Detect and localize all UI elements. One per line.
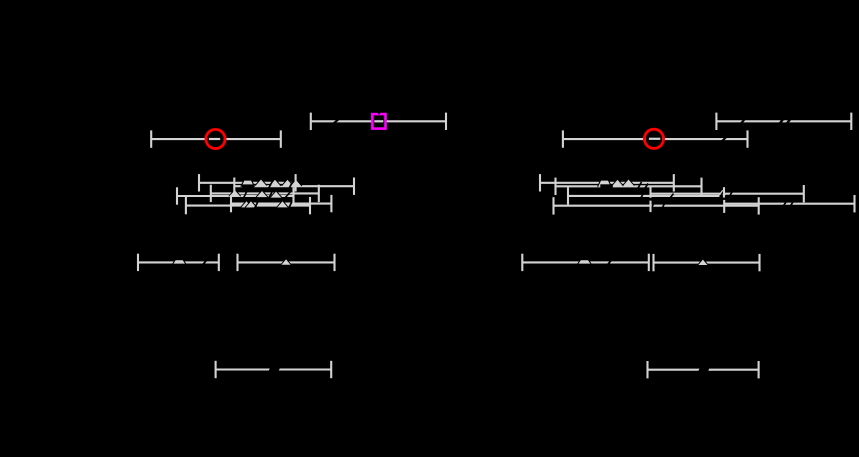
- triangle markers left cluster row A: [241, 179, 302, 187]
- errorbar LB1 line: [199, 182, 296, 184]
- red circle R gray dash: [649, 138, 660, 140]
- caps L7: [215, 361, 217, 378]
- triangle markers left cluster row C: [241, 201, 289, 208]
- magenta square top notch: [377, 112, 381, 115]
- errorbar L7 line: [216, 368, 332, 370]
- errorbar LT1 line: [311, 120, 446, 122]
- black gap on R7: [698, 367, 710, 372]
- caps LB3: [210, 185, 212, 202]
- red circle L gray dash: [209, 138, 220, 140]
- caps LB6: [185, 197, 187, 214]
- caps RB6: [552, 197, 554, 214]
- errorbar LB2 line: [234, 185, 354, 187]
- triangle markers right cluster row A: [598, 179, 635, 187]
- caps RB3: [649, 186, 651, 198]
- caps LR2: [150, 130, 152, 147]
- triangle markers left cluster row B: [229, 189, 282, 197]
- errorbar R7 line: [648, 369, 759, 371]
- errorbar RB6 line: [554, 205, 759, 207]
- errorbar RB1 line: [540, 182, 674, 184]
- errorbar RT1 line: [716, 120, 851, 122]
- caps RB1: [539, 174, 541, 191]
- cap extra right cluster low: [723, 200, 725, 213]
- black dash marker left cluster: [242, 184, 254, 187]
- caps R6b: [652, 254, 654, 271]
- errorbar L6a line: [138, 261, 219, 263]
- red circle L interior: [207, 131, 223, 147]
- errorbar RB2 line: [556, 185, 702, 187]
- triangle marker right cluster row B small: [719, 190, 726, 195]
- caps RB2: [554, 178, 556, 195]
- errorbar RR2 line: [563, 138, 748, 140]
- errorbar LB6 line: [186, 205, 310, 207]
- caps RB5: [649, 201, 651, 213]
- caps R7: [646, 361, 648, 378]
- black slashes on RT1: [741, 119, 745, 123]
- red circle R ring: [644, 129, 663, 148]
- errorbar R6a line: [522, 261, 649, 263]
- caps LB4: [176, 187, 178, 204]
- black slash marks right cluster: [638, 182, 795, 209]
- black slash on LT1: [334, 119, 339, 123]
- caps RR2: [562, 130, 564, 147]
- magenta square ring: [372, 114, 385, 129]
- errorbar RB4 line: [568, 195, 720, 197]
- magenta square gray dash: [374, 120, 383, 122]
- black slash on L6a: [203, 260, 207, 264]
- black gap on L7: [268, 367, 280, 372]
- caps LT1: [310, 113, 312, 130]
- black slash on R6a: [608, 260, 611, 264]
- errorbar R6b line: [654, 262, 760, 264]
- caps LB2: [233, 178, 235, 195]
- errorbar RB3 line: [651, 193, 804, 195]
- caps L6b: [236, 254, 238, 271]
- black slash marks left cluster: [243, 181, 293, 209]
- red circle L ring: [206, 129, 225, 148]
- black slash on RR2: [722, 137, 727, 142]
- red circle R interior: [646, 131, 662, 147]
- magenta square marker interior: [373, 114, 386, 128]
- errorbar RB5 line: [724, 203, 855, 205]
- black dash marker right cluster: [600, 184, 613, 187]
- caps L6a: [137, 254, 139, 271]
- errorbar LB5 line: [231, 203, 331, 205]
- errorbar LB4 line: [177, 195, 294, 197]
- errorbar L6b line: [238, 261, 335, 263]
- caps LB1: [198, 174, 200, 191]
- triangle markers row 6: [172, 259, 708, 265]
- caps RT1: [715, 113, 717, 130]
- caps RB4: [567, 187, 569, 204]
- errorbar LB3 line: [211, 192, 319, 194]
- caps LB5: [230, 195, 232, 212]
- errorbar LR2 line: [151, 138, 281, 140]
- caps R6a: [521, 254, 523, 271]
